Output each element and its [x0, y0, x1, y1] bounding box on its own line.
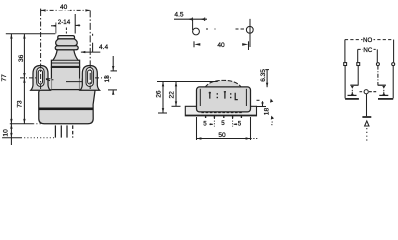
- top view: plunger small circle: [192, 20, 194, 30]
- circuit diagram: actuation direction arrow head: [365, 121, 369, 126]
- side view dimension: 26: [158, 82, 167, 114]
- front view dimension: 73 lower: [23, 78, 25, 124]
- svg-text:4.5: 4.5: [174, 12, 183, 19]
- side view: terminal tab stubs under plate: [206, 116, 242, 118]
- svg-text:2-14: 2-14: [58, 19, 71, 26]
- front view: top extension line for vertical dims: [6, 33, 56, 35]
- circuit diagram: terminal 3 circle: [376, 63, 379, 66]
- svg-text:50: 50: [218, 132, 226, 139]
- circuit diagram: mechanical link dashes left: [360, 91, 364, 93]
- top view: mounting hole circle with centerline: [246, 26, 253, 33]
- circuit diagram: terminal 4 lead wire: [392, 66, 394, 99]
- front view: bellows ring 1: [56, 39, 78, 46]
- side view dimension: 50 overall width: [197, 117, 259, 140]
- front view: pin 2: [60, 125, 62, 137]
- front view: left mounting ear: [31, 66, 50, 91]
- svg-text:NO: NO: [363, 37, 372, 44]
- circuit diagram: plunger T-bar: [362, 116, 371, 118]
- front view: centerline arrow mark on body: [46, 79, 54, 81]
- circuit diagram: right movable contact tip: [382, 92, 385, 95]
- front view: left ear slot hole inner: [38, 70, 42, 84]
- side view: dotted tab extension lines: [213, 118, 215, 127]
- front view: plunger cap: [58, 36, 75, 39]
- side view dimension: 18: [257, 99, 275, 127]
- svg-text:36: 36: [18, 54, 25, 62]
- front view dimension: 13 ear height: [108, 56, 117, 95]
- svg-text:18: 18: [263, 108, 270, 116]
- front view: plunger vertical centerline: [65, 28, 67, 34]
- circuit diagram: right contact gap dots: [383, 90, 384, 91]
- svg-text:6.35: 6.35: [260, 69, 267, 82]
- svg-text:5: 5: [221, 120, 225, 127]
- svg-text:26: 26: [155, 90, 162, 98]
- circuit diagram: terminal 2 lead wire: [357, 66, 359, 86]
- front view dimension: 10 pin length: [10, 124, 12, 145]
- circuit diagram: plunger stem: [366, 94, 368, 117]
- top view dimension: 40: [194, 41, 249, 50]
- svg-text:5: 5: [238, 121, 242, 128]
- circuit diagram: actuator circle: [364, 90, 368, 94]
- svg-text:22: 22: [169, 91, 176, 99]
- side view: inner wall lines: [199, 89, 201, 106]
- front view dimension: 36 upper: [23, 34, 25, 78]
- circuit diagram: terminal 1 lead wire: [344, 66, 346, 99]
- svg-text:NC: NC: [363, 47, 372, 54]
- front view: bellows skirt block: [51, 50, 79, 68]
- front view: left ear slot hole outer: [37, 68, 44, 87]
- circuit diagram: right NC contact tip: [382, 86, 385, 89]
- side view: left extension line (top): [157, 81, 218, 83]
- svg-text:40: 40: [60, 4, 68, 11]
- circuit diagram: terminal 4 circle: [392, 63, 395, 66]
- front view: left ear centerline (dash-dot vertical): [40, 11, 42, 89]
- circuit diagram: right fixed NC contact bar: [378, 84, 386, 86]
- side view dimension: 6.35 terminal width: [265, 70, 269, 88]
- circuit diagram: NC bracket: [358, 49, 378, 62]
- side view: base plate: [185, 80, 256, 126]
- front view dimension: 77 overall height: [10, 34, 12, 124]
- front view: pin 1: [54, 125, 56, 137]
- front view: right ear slot hole outer: [86, 68, 93, 87]
- front view: right mounting ear: [80, 66, 99, 91]
- front view dimension: 2-14 plunger slot: [51, 14, 80, 34]
- side view: main body rounded box: [197, 87, 251, 112]
- front view dimension: 40 between ear centerlines: [41, 9, 91, 12]
- front view: internal step line: [66, 82, 83, 90]
- side view: dashed line inside plate: [201, 112, 242, 114]
- circuit diagram: left movable contact tip: [351, 92, 354, 95]
- circuit diagram: left bottom fixed bar: [345, 98, 359, 100]
- side view: terminal slot marks inside body: [209, 92, 211, 99]
- svg-text:13: 13: [104, 75, 111, 83]
- svg-text:73: 73: [17, 100, 24, 108]
- front view: right ear slot hole inner: [88, 70, 92, 84]
- side view: plate bottom edge: [185, 114, 256, 116]
- front view: bellows ring 2: [55, 46, 78, 50]
- front view: ear hole horizontal centerline right: [95, 77, 111, 79]
- front view: thick gasket band: [39, 108, 93, 111]
- front view: ear hole horizontal centerline left: [20, 77, 36, 79]
- front view: pin 3: [66, 125, 68, 137]
- svg-text:77: 77: [1, 74, 8, 82]
- circuit diagram: terminal 2 square: [357, 63, 360, 66]
- front view: skirt seam lines: [52, 62, 79, 64]
- svg-text:5: 5: [203, 121, 207, 128]
- svg-text:10: 10: [2, 129, 9, 137]
- top view: dashed link line: [206, 28, 244, 30]
- front view: right ear centerline: [89, 10, 91, 89]
- top view: dimension 4.5 with ticks and arrows: [174, 18, 207, 22]
- circuit diagram: left NC contact tip: [351, 86, 354, 89]
- side view dimension: 22: [172, 82, 181, 107]
- side view dimensions: 5 5 5 terminal pitch: [209, 123, 237, 125]
- circuit diagram: left movable contact bar: [348, 94, 357, 96]
- circuit diagram: mechanical link dashes right: [369, 91, 377, 93]
- front view: pin 4 hidden: [72, 125, 74, 137]
- front view: switch body lower housing: [31, 36, 100, 138]
- svg-text:4.4: 4.4: [99, 44, 108, 51]
- circuit diagram: actuation arrow dotted tail: [366, 128, 368, 141]
- front view dimension: 4.4 plunger offset: [81, 34, 100, 54]
- front view: bottom extension line (body base): [10, 123, 33, 125]
- svg-text:40: 40: [217, 42, 225, 49]
- circuit diagram: terminal 3 lead wire: [377, 66, 379, 86]
- circuit diagram: left fixed NC contact bar: [350, 84, 358, 86]
- front view: pin tip extension line: [2, 137, 21, 139]
- circuit diagram: terminal 1 square: [344, 63, 347, 66]
- front view: gusset webs joining ears: [46, 79, 51, 90]
- circuit diagram: right movable contact bar: [379, 94, 388, 96]
- front view: upper body slab: [51, 67, 79, 89]
- circuit diagram: right bottom fixed bar: [378, 98, 393, 100]
- circuit diagram: NO bracket: [345, 40, 394, 63]
- circuit diagram: left contact gap dots: [352, 90, 353, 91]
- front view: housing seam line: [40, 88, 95, 90]
- side view: top dome bump: [205, 80, 242, 87]
